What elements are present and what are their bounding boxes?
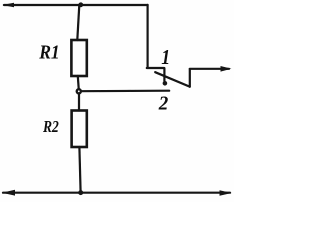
wire switch common riser [189, 69, 191, 87]
wire contact 1 stub [147, 67, 164, 69]
arrowhead bottom-right [220, 190, 232, 196]
wire bottom rail [3, 192, 230, 194]
wire output to the right [190, 68, 229, 70]
node contact 1 dot [163, 81, 168, 86]
svg-text:R1: R1 [38, 42, 59, 64]
arrowhead output arrow [221, 66, 232, 72]
svg-text:2: 2 [158, 93, 169, 115]
wire divider junction to switch contact 2 [80, 90, 169, 93]
arrowhead bottom-left [2, 190, 15, 196]
wire R2 top lead [78, 92, 80, 111]
resistor R1 [71, 40, 86, 76]
svg-text:R2: R2 [42, 118, 59, 137]
wire R1 bottom lead [78, 76, 79, 90]
wire top rail [4, 4, 148, 6]
wire lead from top rail to R1 [77, 5, 79, 40]
switch arm [155, 72, 189, 86]
wire top-right corner down to switch [147, 5, 149, 68]
wire R2 bottom lead [79, 147, 80, 192]
resistor R2 [72, 111, 87, 148]
node bottom junction dot [78, 190, 83, 195]
arrowhead left end of top rail [2, 3, 14, 8]
wire contact 1 hook down [163, 68, 165, 80]
node top junction dot [78, 2, 83, 7]
svg-text:1: 1 [161, 47, 170, 70]
node divider junction ring [77, 89, 81, 93]
